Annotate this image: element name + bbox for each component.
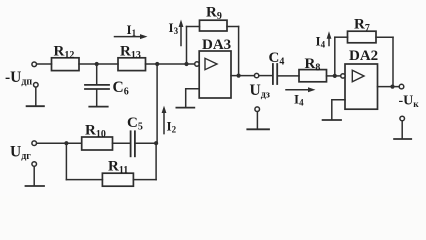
node DA2 output junction: [390, 85, 394, 89]
op-amp DA3: [199, 51, 231, 98]
wire C6 to ground: [96, 90, 98, 106]
capacitor C4: [273, 64, 277, 84]
ground DA3 noninverting: [176, 107, 194, 109]
terminal Uдг upper: [32, 141, 37, 146]
arrow I4 top: [328, 35, 330, 45]
node R9 tap: [184, 62, 188, 66]
node junction C6 tap: [95, 62, 99, 66]
ground under -Uдп: [27, 105, 44, 107]
resistor R7: [348, 31, 377, 43]
wire -Uк lower to ground: [401, 121, 403, 138]
wire R9 right vertical: [238, 27, 240, 76]
svg-text:DA3: DA3: [202, 37, 231, 53]
arrow I1: [115, 36, 145, 38]
resistor R10: [82, 137, 113, 150]
svg-text:DA2: DA2: [349, 48, 378, 64]
wire R11 right horizontal: [133, 179, 156, 181]
wire R7 right horizontal: [376, 36, 393, 38]
wire R12 to R13: [79, 63, 118, 65]
resistor R13: [118, 58, 146, 71]
wire -Uдп lower to ground: [35, 87, 37, 105]
wire R9 right horizontal: [227, 26, 239, 28]
node bottom-right junction: [154, 141, 158, 145]
resistor R11: [102, 173, 133, 186]
wire R8 to DA2: [327, 75, 341, 77]
wire R11 left horizontal: [66, 179, 102, 181]
wire C5 to node: [136, 142, 157, 144]
resistor R9: [200, 20, 228, 31]
ground under Uдг: [26, 185, 45, 187]
wire Uдг lower to ground: [33, 166, 35, 185]
node DA3 output junction: [237, 74, 241, 78]
wire DA2 noninverting input: [332, 100, 345, 119]
wire R9 left horizontal: [187, 26, 200, 28]
wire Uдз lower to ground: [256, 112, 258, 129]
wire R13 to DA3 input: [146, 63, 195, 65]
wire input to R10: [37, 142, 82, 144]
terminal Uдз upper: [254, 73, 258, 77]
node R7 tap: [333, 74, 337, 78]
wire R7 left vertical: [334, 37, 336, 76]
arrow I3: [180, 24, 182, 46]
wire R7 left horizontal: [335, 36, 348, 38]
wire C4 to R8: [278, 75, 299, 77]
terminal Uдз lower: [255, 107, 260, 112]
capacitor C6: [85, 85, 109, 89]
terminal -Uк upper: [399, 84, 404, 89]
ground DA2 noninverting: [323, 119, 341, 121]
ground under C6: [89, 106, 107, 108]
wire to C4: [259, 75, 272, 77]
terminal -Uдп upper: [32, 62, 37, 67]
terminal -Uдп lower: [34, 83, 39, 88]
wire R9 left vertical: [186, 27, 188, 65]
wire R11 left vertical: [65, 143, 67, 179]
ground under Uдз: [247, 128, 269, 130]
arrow I2: [163, 110, 165, 134]
arrow I4 bottom: [286, 89, 312, 91]
wire R11 right vertical: [155, 143, 157, 179]
wire input to R12: [37, 63, 52, 65]
wire DA3 noninverting input: [186, 89, 200, 107]
wire DA2 output: [378, 86, 400, 88]
resistor R12: [52, 58, 80, 71]
resistor R8: [299, 70, 327, 82]
node bottom-left junction: [64, 141, 68, 145]
wire R10 to C5: [113, 142, 130, 144]
wire R7 right vertical: [392, 37, 394, 86]
node summing junction: [155, 62, 159, 66]
wire C6 branch: [96, 64, 98, 84]
terminal Uдг lower: [32, 162, 37, 167]
ground under -Uк: [394, 138, 411, 140]
terminal -Uк lower: [400, 116, 405, 121]
wire riser to summing node: [156, 64, 158, 143]
wire DA3 output: [231, 75, 254, 77]
op-amp DA2: [345, 64, 378, 109]
capacitor C5: [131, 131, 135, 156]
